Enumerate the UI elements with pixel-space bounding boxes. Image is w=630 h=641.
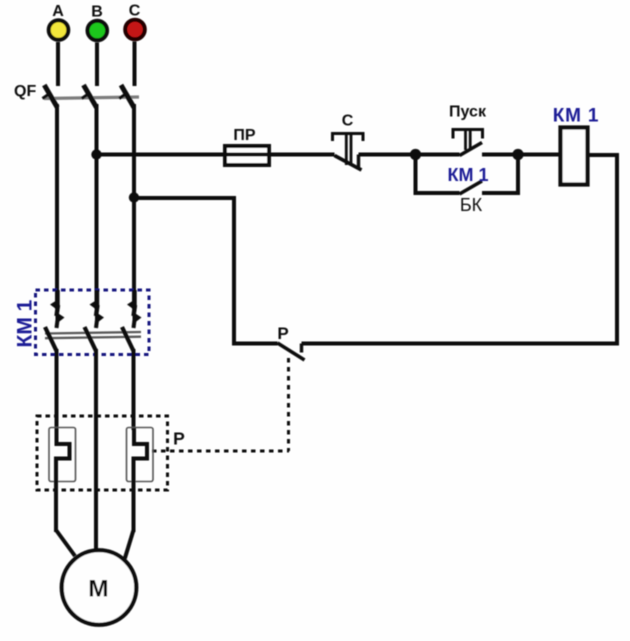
aux contact branch right riser xyxy=(516,155,520,196)
start button Pusk label xyxy=(449,104,487,121)
motor M body xyxy=(62,550,137,625)
wire phase B middle xyxy=(95,104,99,309)
svg-text:P: P xyxy=(277,324,288,343)
svg-text:C: C xyxy=(129,3,141,20)
aux contact branch bottom left wire xyxy=(414,191,460,195)
thermal contact P right stub xyxy=(300,344,303,353)
svg-text:КМ 1: КМ 1 xyxy=(14,299,37,347)
heater element A outline xyxy=(49,428,76,482)
breaker QF mechanical link xyxy=(44,97,139,99)
wire phase C top xyxy=(133,42,137,87)
thermal contact P label xyxy=(277,324,288,343)
junction dot on phase C control tap xyxy=(129,192,139,202)
thermal relay box xyxy=(37,416,168,490)
svg-text:М: М xyxy=(88,576,108,603)
node B terminal label xyxy=(91,4,103,21)
breaker QF pole 1 xyxy=(43,85,58,108)
wire phase C to motor xyxy=(125,530,134,559)
junction dot left of start button xyxy=(410,149,421,160)
wire phase C middle xyxy=(132,104,136,309)
heater element A xyxy=(56,428,70,532)
wire right junction to coil xyxy=(518,153,560,157)
node A terminal label xyxy=(52,3,64,20)
svg-text:КМ 1: КМ 1 xyxy=(448,165,489,185)
contactor KM1 pole 3 blade xyxy=(122,327,134,351)
start button Pusk plunger xyxy=(466,131,471,150)
breaker QF pole 3 xyxy=(119,85,134,108)
thermal relay P label xyxy=(173,429,185,449)
svg-text:КМ 1: КМ 1 xyxy=(553,106,599,127)
lamp terminal C (red) xyxy=(125,20,145,40)
fuse PR label xyxy=(233,127,256,144)
svg-text:A: A xyxy=(52,3,64,20)
start button Pusk actuator bracket xyxy=(453,130,483,139)
aux contact BK label xyxy=(460,195,483,215)
fuse PR body xyxy=(225,146,269,165)
node C terminal label xyxy=(129,3,141,20)
stop button C actuator bracket xyxy=(333,134,364,142)
breaker QF pole 2 xyxy=(82,85,97,108)
aux contact KM1 blade xyxy=(460,181,483,194)
lamp terminal A (yellow) xyxy=(49,20,69,40)
wire coil to right rail xyxy=(588,153,620,157)
svg-text:Пуск: Пуск xyxy=(449,104,487,121)
contactor KM1 mechanical link (double grey line) xyxy=(45,332,141,338)
contactor KM1 pole 2 fixed side xyxy=(90,290,105,328)
svg-text:P: P xyxy=(173,429,185,449)
aux contact branch bottom right wire xyxy=(482,191,520,195)
wire bottom return rail xyxy=(302,342,620,346)
aux contact branch left drop xyxy=(414,155,418,196)
wire control line from B to stop button xyxy=(97,153,335,157)
aux contact KM1 label xyxy=(448,165,489,185)
stop button C right stub xyxy=(357,155,360,169)
dashed link relay to contact xyxy=(152,450,289,453)
dashed link thermal contact to relay xyxy=(287,358,290,451)
breaker QF label xyxy=(14,83,36,100)
stop button C label xyxy=(342,113,354,130)
wire phase A middle xyxy=(55,104,59,309)
heater element C outline xyxy=(127,428,154,482)
wire phase A to motor xyxy=(56,530,75,556)
contactor KM1 pole 1 blade xyxy=(45,327,57,351)
svg-text:С: С xyxy=(342,113,354,130)
wire phase C tap horizontal xyxy=(134,196,236,200)
wire junction to start button xyxy=(416,153,460,157)
wire phase A lower xyxy=(55,349,59,430)
junction dot on phase B control tap xyxy=(91,149,101,159)
contactor KM1 pole 1 fixed side xyxy=(50,290,65,328)
contactor KM1 pole 3 fixed side xyxy=(127,290,142,328)
wire phase C lower xyxy=(132,349,136,430)
contactor KM1 main box xyxy=(36,290,150,355)
wire start button to right junction xyxy=(482,153,518,157)
thermal contact P blade xyxy=(278,343,305,360)
wire thermal contact left xyxy=(232,342,278,346)
coil KM1 body xyxy=(561,128,588,185)
wire phase A top xyxy=(56,42,60,86)
lamp terminal B (green) xyxy=(88,21,108,41)
contactor KM1 pole 2 blade xyxy=(85,327,97,351)
heater element C xyxy=(134,428,148,532)
wire left riser to phase C tap xyxy=(232,196,236,346)
wire phase B top xyxy=(95,43,99,87)
junction dot right of start button xyxy=(512,149,523,160)
motor M label xyxy=(88,576,108,603)
svg-text:B: B xyxy=(91,4,103,21)
svg-text:ПР: ПР xyxy=(233,127,256,144)
stop button C contact blade xyxy=(335,156,362,171)
coil KM1 label xyxy=(553,106,599,127)
start button Pusk contact blade xyxy=(460,143,483,156)
wire right rail down xyxy=(615,153,619,346)
stop button C plunger xyxy=(346,135,351,165)
contactor KM1 rotated label xyxy=(14,299,37,347)
svg-text:БК: БК xyxy=(460,195,483,215)
wire stop button to junction xyxy=(359,153,416,157)
wire phase B lower xyxy=(94,349,98,549)
svg-text:QF: QF xyxy=(14,83,36,100)
